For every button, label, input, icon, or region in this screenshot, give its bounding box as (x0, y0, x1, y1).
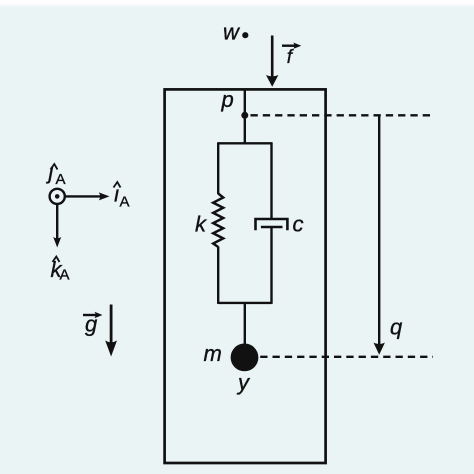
gravity g vector label (83, 312, 103, 337)
svg-text:w: w (223, 20, 241, 45)
vector f label (282, 43, 301, 69)
outer housing box (165, 89, 326, 463)
wire: box top to node p to assembly top (244, 89, 246, 143)
axis i_A arrow (66, 192, 110, 200)
svg-text:A: A (56, 171, 66, 188)
damper c branch: upper rod (270, 142, 272, 219)
spring-damper assembly top bar (218, 142, 271, 144)
frame A origin symbol (circle-dot) (50, 189, 65, 204)
gravity g arrow (down) (105, 305, 117, 357)
dashed reference line from p (251, 114, 434, 116)
svg-text:y: y (236, 370, 251, 395)
svg-text:q: q (390, 315, 403, 340)
assembly bottom bar (218, 302, 271, 304)
label k_A with hat (51, 257, 70, 284)
damper piston plate (261, 226, 283, 229)
displacement q measure line (378, 116, 380, 346)
node w dot (242, 32, 248, 38)
axis k_A arrow (down) (53, 205, 61, 248)
damper lower rod (270, 227, 272, 304)
damper cylinder cup (256, 219, 288, 230)
svg-text:c: c (293, 212, 304, 237)
svg-text:k: k (195, 212, 207, 237)
label j_A with hat (46, 159, 66, 188)
force f arrow (266, 36, 278, 87)
label i_A with hat (114, 182, 130, 211)
dashed reference line from mass (260, 356, 433, 358)
spring k branch: upper lead (217, 142, 219, 194)
spring lower lead (217, 247, 219, 304)
svg-text:A: A (120, 194, 130, 211)
svg-text:g: g (85, 312, 98, 337)
wire: assembly bottom to mass (244, 303, 246, 345)
svg-text:m: m (204, 341, 222, 366)
svg-text:p: p (221, 87, 234, 112)
mass m ball (231, 344, 259, 372)
spring k zigzag (213, 194, 223, 248)
node p dot (241, 112, 248, 119)
svg-text:A: A (60, 267, 70, 284)
